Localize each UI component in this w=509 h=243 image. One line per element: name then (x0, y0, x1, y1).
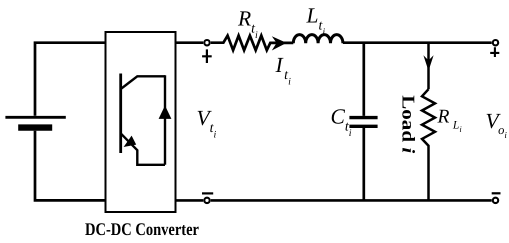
capacitor Cti plates (349, 116, 377, 119)
wire: bottom rail from box to output (176, 199, 204, 202)
minus sign at Vti (202, 192, 213, 194)
plus sign at Voi (490, 47, 499, 57)
load current arrow (423, 55, 433, 71)
capacitor Cti branch wire (top) (362, 43, 365, 116)
capacitor Cti branch wire (bottom) (362, 128, 365, 200)
battery BT1 (5, 43, 105, 201)
diode D1 (freewheeling branch) (164, 75, 166, 165)
node terminal: Voi plus (493, 40, 498, 45)
current arrow Iti (272, 36, 287, 50)
load branch wire (top) (427, 43, 430, 89)
node terminal: Voi minus (493, 198, 498, 203)
resistor RLi zigzag (vertical) (422, 89, 435, 200)
svg-text:DC-DC Converter: DC-DC Converter (85, 219, 199, 239)
transistor Q1 (IGBT) (121, 74, 165, 165)
transistor Q1 emitter arrow (124, 136, 137, 147)
wire + resistor Rti zigzag (211, 36, 293, 51)
node terminal: Vti minus (204, 198, 209, 203)
diode D1 arrow (159, 106, 172, 119)
svg-text:Load i: Load i (399, 95, 419, 153)
plus sign at Vti (202, 49, 212, 63)
inductor Lti (293, 35, 343, 44)
minus sign at Voi (492, 192, 501, 194)
wire: box to node vti+ (176, 41, 204, 44)
node terminal: Vti plus (204, 40, 209, 45)
wire: inductor to output terminal (343, 41, 492, 44)
DC-DC converter box U1 (106, 32, 176, 212)
wire: bottom rail (211, 199, 492, 202)
